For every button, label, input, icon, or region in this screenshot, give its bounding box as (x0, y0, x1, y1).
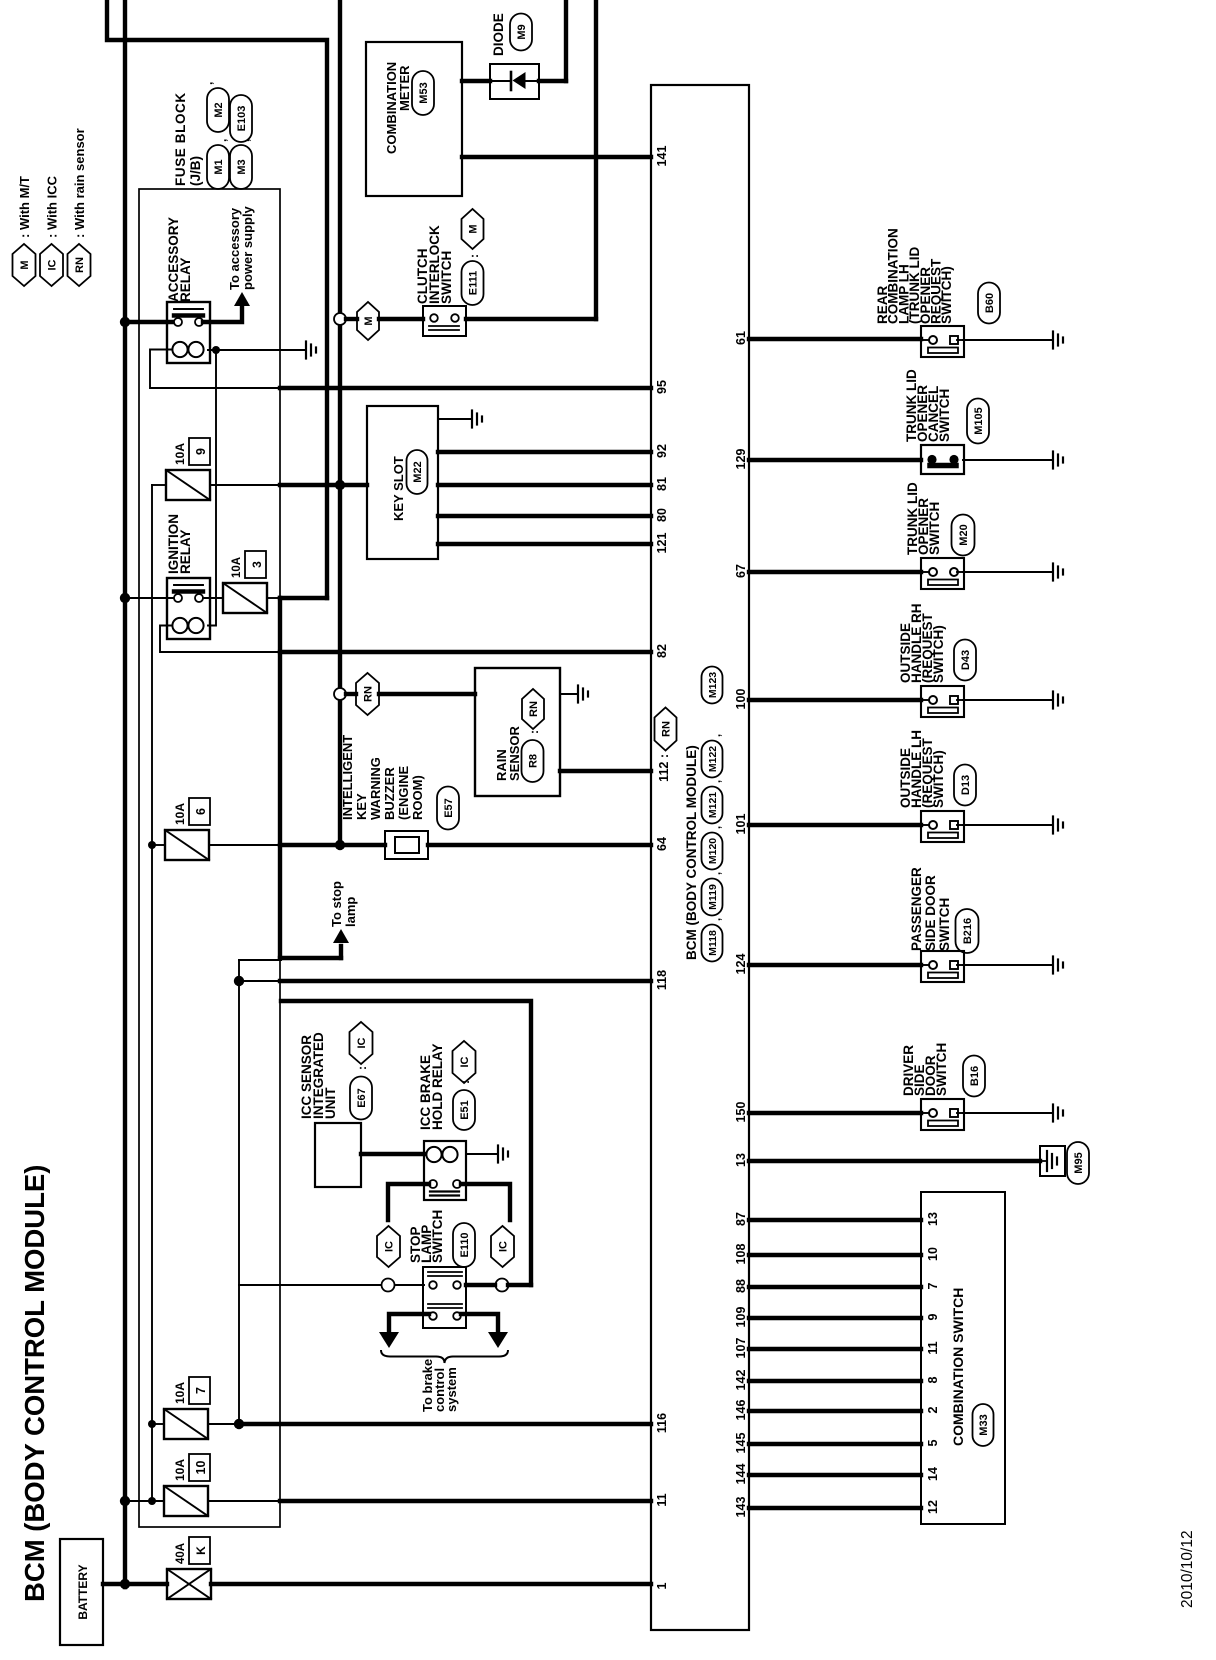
node fuse6 feed (148, 841, 156, 849)
legend hexagon M (13, 244, 36, 286)
svg-text:10A: 10A (173, 443, 187, 465)
stop lamp switch (423, 1267, 466, 1328)
fuse 40A K (167, 1569, 211, 1599)
svg-text:,: , (711, 734, 723, 737)
node fuse7 feed (148, 1420, 156, 1428)
svg-text:BCM (BODY CONTROL MODULE): BCM (BODY CONTROL MODULE) (684, 745, 699, 960)
svg-text:lamp: lamp (343, 897, 358, 927)
wire pin 107 (749, 1347, 921, 1351)
svg-text:M120: M120 (707, 838, 719, 864)
wire fuse3 out (267, 597, 280, 599)
svg-text:121: 121 (655, 533, 669, 554)
arrow brake upper (379, 1332, 399, 1348)
M95 oval (1067, 1142, 1089, 1184)
wire pin 88 (749, 1285, 921, 1289)
wire brake arrow upper (389, 1314, 429, 1332)
rear combination lamp switch B60 (921, 326, 964, 357)
wire B60 ground (963, 339, 1053, 341)
battery bus wire (123, 0, 127, 1587)
wire brake arrow lower (461, 1314, 498, 1332)
ground rain sensor (577, 686, 579, 703)
wire stop lamp feed line (238, 960, 240, 1424)
wire pin 13 (749, 1159, 1040, 1163)
svg-text:143: 143 (734, 1497, 748, 1518)
svg-text:IC: IC (498, 1241, 510, 1252)
svg-text:88: 88 (734, 1279, 748, 1293)
svg-text:118: 118 (655, 970, 669, 990)
svg-text:RN: RN (74, 257, 86, 273)
svg-text:K: K (194, 1546, 208, 1555)
svg-text:IC: IC (384, 1241, 396, 1252)
svg-text:M: M (19, 260, 31, 269)
svg-text:144: 144 (734, 1464, 748, 1485)
fuse 10A 3 (223, 583, 267, 613)
svg-text:87: 87 (734, 1212, 748, 1226)
wire pin 112 (560, 769, 651, 773)
svg-text:,: , (711, 826, 723, 829)
svg-text:METER: METER (397, 65, 412, 111)
svg-text:SWITCH: SWITCH (937, 389, 952, 442)
svg-text:,: , (215, 139, 229, 142)
svg-text:BCM (BODY CONTROL MODULE): BCM (BODY CONTROL MODULE) (19, 1165, 50, 1602)
node accessory relay branch (120, 317, 130, 327)
svg-text:M2: M2 (213, 102, 225, 117)
wire pin 92 (438, 450, 651, 454)
wire pin 124 (749, 963, 921, 967)
svg-text:D13: D13 (960, 775, 972, 795)
wire pin 11 (208, 1500, 280, 1502)
svg-text:M53: M53 (418, 82, 430, 103)
svg-text:WARNING: WARNING (368, 757, 383, 820)
fuse 10A 10 (164, 1486, 208, 1516)
svg-text:HOLD RELAY: HOLD RELAY (430, 1043, 445, 1130)
svg-text:67: 67 (734, 564, 748, 578)
svg-text:E111: E111 (468, 271, 480, 295)
svg-text:M20: M20 (958, 524, 970, 545)
node ignition relay branch (120, 593, 130, 603)
svg-text:SWITCH: SWITCH (934, 1043, 949, 1096)
svg-text:10A: 10A (231, 557, 243, 578)
svg-text:RN: RN (363, 686, 375, 702)
svg-text:81: 81 (655, 477, 669, 491)
wire accessory coil to pin95 (150, 350, 280, 389)
svg-text:IC: IC (459, 1056, 471, 1067)
svg-text:112 :: 112 : (657, 754, 671, 782)
wire fuse3 thick riser (280, 596, 327, 600)
wire stop lamp switch feed (239, 1284, 381, 1286)
svg-text:SWITCH: SWITCH (937, 898, 952, 951)
node pin116 junction (234, 1419, 244, 1429)
svg-text:10: 10 (926, 1247, 940, 1261)
wire pin 121 (438, 542, 651, 546)
svg-text:145: 145 (734, 1433, 748, 1454)
wire ignition relay out (203, 597, 223, 599)
ignition relay (167, 578, 210, 639)
wire pin 142 (749, 1379, 921, 1383)
wire icc unit to relay (361, 1152, 424, 1156)
svg-text:B216: B216 (962, 918, 974, 944)
svg-text:107: 107 (734, 1338, 748, 1359)
svg-text:IC: IC (47, 259, 59, 270)
svg-text:To stop: To stop (329, 881, 344, 927)
outside handle LH switch D13 (921, 811, 964, 842)
wire stop lamp switch out (466, 1283, 495, 1287)
wire D43 ground (963, 699, 1053, 701)
svg-text:RELAY: RELAY (178, 529, 193, 574)
wire pin 81 (438, 483, 651, 487)
svg-text:129: 129 (734, 449, 748, 470)
svg-text:11: 11 (926, 1341, 940, 1354)
icc sensor integrated unit (315, 1123, 361, 1187)
wire pin 95 (280, 386, 651, 390)
svg-text:E103: E103 (236, 106, 248, 132)
wire pin 80 (438, 514, 651, 518)
wire stop lamp branch (239, 959, 281, 961)
wire icc relay contact upper (388, 1184, 429, 1220)
wire ICC trunk (281, 1001, 531, 1285)
svg-text:2: 2 (926, 1406, 940, 1413)
svg-text:82: 82 (655, 644, 669, 658)
svg-text:5: 5 (926, 1439, 940, 1446)
svg-text:116: 116 (655, 1413, 669, 1433)
wire pin 141 (462, 155, 651, 159)
trunk lid opener cancel switch M105 (921, 445, 964, 474)
wire M105 ground (963, 459, 1053, 461)
svg-text:40A: 40A (175, 1543, 187, 1564)
hexagon M clutch (357, 302, 379, 340)
svg-text:M95: M95 (1073, 1152, 1085, 1173)
wire fuse9 out (210, 484, 280, 486)
svg-text:1: 1 (655, 1582, 669, 1589)
diode M9 (490, 64, 539, 99)
wire rain sensor ground (560, 693, 578, 695)
wire pin 61 (749, 337, 921, 341)
svg-text:SWITCH: SWITCH (439, 251, 454, 304)
svg-text:92: 92 (655, 444, 669, 458)
wire diode to edge (539, 79, 566, 83)
svg-text:8: 8 (926, 1376, 940, 1383)
wire to accessory power (203, 308, 242, 322)
passenger side door switch B216 (921, 951, 964, 982)
svg-text:10: 10 (194, 1461, 208, 1475)
svg-text:B16: B16 (969, 1066, 981, 1086)
svg-text:95: 95 (655, 380, 669, 394)
svg-text::: : (527, 730, 541, 734)
svg-text:10A: 10A (173, 1459, 187, 1481)
arrow to accessory power (234, 292, 250, 306)
svg-text:E110: E110 (459, 1232, 471, 1257)
node pin118 junction (234, 976, 244, 986)
wire pin 64 lower (340, 843, 385, 847)
M95 ground box (1040, 1146, 1065, 1176)
svg-text:13: 13 (926, 1212, 940, 1226)
svg-text:SWITCH): SWITCH) (931, 750, 946, 808)
svg-text:R8: R8 (528, 754, 540, 768)
wire battery to bus (103, 1582, 125, 1586)
svg-text::: : (355, 1066, 369, 1070)
node pin11 branch (120, 1496, 130, 1506)
svg-text:SIDE DOOR: SIDE DOOR (923, 875, 938, 951)
wire pin 64 upper (209, 844, 280, 846)
node rain sensor branch circle (334, 688, 346, 700)
svg-text:9: 9 (194, 448, 208, 455)
svg-text:M9: M9 (516, 24, 528, 39)
svg-text:COMBINATION SWITCH: COMBINATION SWITCH (950, 1288, 966, 1446)
wire stop lamp trunk (278, 598, 282, 958)
wire fuse9 stub (152, 484, 166, 486)
svg-text:109: 109 (734, 1307, 748, 1328)
svg-text:,: , (711, 872, 723, 875)
wire pin 144 (749, 1473, 921, 1477)
svg-text:M33: M33 (978, 1414, 990, 1435)
svg-text:E67: E67 (356, 1088, 368, 1108)
svg-text:(J/B): (J/B) (188, 156, 203, 186)
wire clutch feed (346, 317, 357, 321)
svg-text:M119: M119 (707, 884, 719, 910)
svg-text:FUSE BLOCK: FUSE BLOCK (173, 92, 188, 186)
node clutch branch circle (334, 313, 346, 325)
svg-text:UNIT: UNIT (323, 1087, 338, 1119)
svg-text:142: 142 (734, 1370, 748, 1391)
combination meter (366, 42, 462, 196)
wire pin 108 (749, 1253, 921, 1257)
svg-text:M123: M123 (707, 672, 719, 698)
wire pin 82 (280, 650, 651, 654)
svg-text:(ENGINE: (ENGINE (396, 766, 411, 821)
svg-text:141: 141 (655, 146, 669, 167)
hexagon IC upper (377, 1226, 400, 1267)
rain sensor (475, 668, 560, 796)
wire meter to diode (462, 79, 490, 83)
node battery junction (120, 1579, 130, 1589)
svg-text:M118: M118 (707, 930, 719, 956)
svg-text:E51: E51 (459, 1100, 471, 1120)
svg-text:,: , (711, 780, 723, 783)
wire key slot ground (438, 418, 472, 420)
node stop lamp circle lower (496, 1279, 509, 1292)
wire accessory relay feed (125, 320, 175, 324)
wire icc relay contact lower (461, 1184, 510, 1220)
svg-text:M: M (363, 316, 375, 325)
svg-text:14: 14 (926, 1467, 940, 1481)
svg-text:M122: M122 (707, 746, 719, 772)
arrow brake lower (488, 1332, 508, 1348)
wire pin 101 (749, 823, 921, 827)
svg-text:RN: RN (661, 721, 673, 737)
wire ignition coil to pin82 (160, 626, 280, 653)
wire pin 145 (749, 1442, 921, 1446)
clutch interlock switch (423, 306, 466, 336)
svg-text:IC: IC (356, 1037, 368, 1048)
svg-text:13: 13 (734, 1153, 748, 1167)
svg-text:146: 146 (734, 1400, 748, 1421)
node relay ground junction (212, 346, 220, 354)
wire pin 1 feed (125, 1582, 167, 1586)
svg-text:KEY: KEY (354, 793, 369, 820)
svg-text:: With M/T: : With M/T (17, 176, 32, 238)
wire fuse10 feed (125, 1500, 164, 1502)
svg-text:SWITCH): SWITCH) (939, 266, 954, 324)
wire fuse6 stub (152, 844, 165, 846)
svg-text:7: 7 (194, 1387, 208, 1394)
icc brake hold relay (424, 1141, 466, 1200)
svg-text::: : (467, 254, 481, 258)
fuse 10A 6 (165, 830, 209, 860)
svg-text:9: 9 (926, 1313, 940, 1320)
hexagon RN rain feed (356, 673, 379, 715)
wire fuse feed line (151, 485, 153, 1501)
svg-text:M22: M22 (412, 461, 424, 482)
svg-text:: With rain sensor: : With rain sensor (72, 128, 87, 238)
svg-text:INTELLIGENT: INTELLIGENT (340, 735, 355, 820)
svg-text:10A: 10A (173, 1382, 187, 1404)
svg-text:12: 12 (926, 1500, 940, 1514)
svg-text:11: 11 (655, 1493, 669, 1506)
svg-text:D43: D43 (960, 650, 972, 670)
svg-text:M: M (468, 224, 480, 233)
clutch connector E111 M (462, 261, 484, 305)
wire pin 116 (239, 1422, 651, 1426)
svg-text:101: 101 (734, 814, 748, 835)
svg-text:150: 150 (734, 1102, 748, 1123)
wire D13 ground (963, 824, 1053, 826)
svg-text:BATTERY: BATTERY (76, 1564, 90, 1619)
legend hexagon IC (40, 244, 63, 286)
accessory relay (167, 302, 210, 363)
svg-text:KEY SLOT: KEY SLOT (391, 456, 406, 521)
svg-text:E57: E57 (443, 798, 455, 818)
wire ignition coil ground link (208, 350, 216, 626)
outside handle RH switch D43 (921, 686, 964, 717)
trunk lid opener switch M20 (921, 558, 964, 589)
svg-text:7: 7 (926, 1282, 940, 1289)
wire pin 67 (749, 570, 921, 574)
node stop lamp circle upper (382, 1279, 395, 1292)
svg-text:124: 124 (734, 954, 748, 975)
svg-text:M105: M105 (973, 407, 985, 435)
wire pin 87 (749, 1218, 921, 1222)
svg-text:108: 108 (734, 1244, 748, 1265)
svg-text:2010/10/12: 2010/10/12 (1179, 1530, 1196, 1608)
svg-text:10A: 10A (173, 803, 187, 825)
wire B216 ground (963, 964, 1053, 966)
fuse 10A 9 (166, 470, 210, 500)
wire ignition feed line (107, 0, 327, 598)
svg-text:ROOM): ROOM) (410, 775, 425, 820)
wire B16 ground (963, 1112, 1053, 1114)
BCM body control module box (651, 85, 749, 1630)
fuse block J/B box (139, 189, 280, 1527)
node fuse9 y340 junction (335, 480, 345, 490)
brace to brake (381, 1350, 508, 1363)
svg-text:61: 61 (734, 331, 748, 345)
wire accessory line y340 (338, 0, 342, 845)
node pin64 y340 junction (335, 840, 345, 850)
svg-text:SENSOR: SENSOR (507, 725, 522, 781)
wire icc relay ground (466, 1153, 498, 1155)
svg-text:: With ICC: : With ICC (45, 175, 60, 238)
hexagon IC lower (491, 1226, 514, 1267)
wire M20 ground (963, 571, 1053, 573)
wire pin 100 (749, 698, 921, 702)
svg-text:power supply: power supply (240, 205, 255, 290)
wire fuse7 stub (152, 1423, 164, 1425)
svg-text:PASSENGER: PASSENGER (909, 867, 924, 951)
wire to stop lamp (280, 956, 341, 960)
svg-text:,: , (201, 82, 215, 85)
svg-text:M121: M121 (707, 792, 719, 818)
wire pin 150 (749, 1111, 921, 1115)
wire fuse7 out (208, 1423, 239, 1425)
svg-text:64: 64 (655, 837, 669, 851)
svg-text:B60: B60 (984, 293, 996, 313)
wire pin 143 (749, 1506, 921, 1510)
wire pin 118 (239, 980, 280, 982)
svg-text:80: 80 (655, 508, 669, 522)
driver side door switch B16 (921, 1099, 964, 1130)
wire pin 109 (749, 1316, 921, 1320)
svg-text:100: 100 (734, 689, 748, 710)
wire clutch to edge (466, 317, 596, 321)
legend hexagon RN (68, 244, 91, 286)
ground relay coils (305, 342, 307, 359)
wire pin 146 (749, 1409, 921, 1413)
fuse 10A 7 (164, 1409, 208, 1439)
svg-text:SWITCH: SWITCH (430, 1210, 445, 1263)
svg-text:M1: M1 (213, 159, 225, 174)
svg-text:,: , (711, 918, 723, 921)
ground icc relay (497, 1146, 499, 1163)
svg-text:SWITCH): SWITCH) (931, 625, 946, 683)
wire ignition relay feed (125, 597, 175, 599)
intelligent key warning buzzer (385, 831, 428, 859)
key slot (367, 406, 438, 559)
svg-text:3: 3 (250, 561, 264, 568)
wire accessory coil ground stub (208, 349, 306, 351)
arrow to stop lamp (333, 929, 349, 943)
svg-text:6: 6 (194, 808, 208, 815)
svg-text:RELAY: RELAY (178, 257, 193, 302)
svg-text:RN: RN (528, 701, 540, 717)
battery (60, 1539, 103, 1645)
svg-text:DIODE: DIODE (491, 13, 506, 56)
node fuse10 out (148, 1497, 156, 1505)
svg-text:BUZZER: BUZZER (382, 767, 397, 820)
svg-text:system: system (444, 1367, 459, 1412)
svg-text:M3: M3 (236, 159, 248, 174)
ground key slot (471, 411, 473, 428)
wire rain sensor feed (346, 692, 356, 696)
svg-text:SWITCH: SWITCH (927, 502, 942, 555)
wire pin 129 (749, 458, 921, 462)
combination switch (921, 1192, 1005, 1524)
